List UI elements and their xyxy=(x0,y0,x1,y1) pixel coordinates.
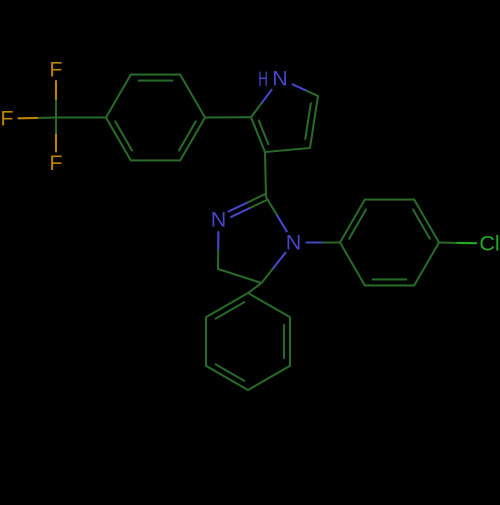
svg-text:F: F xyxy=(49,151,62,175)
pyrrole N-C2 xyxy=(251,90,272,118)
phenyl edge xyxy=(248,366,290,390)
biaryl bond ring1-pyrrole xyxy=(205,116,251,118)
pyrrole C4=C5 double xyxy=(305,96,318,148)
phenyl edge xyxy=(248,293,290,317)
phenyl edge TL double xyxy=(206,293,248,319)
svg-text:N: N xyxy=(286,231,302,255)
imidazoline C2=N3 double xyxy=(229,194,268,217)
bond C-F bottom xyxy=(55,118,57,152)
bond pyrrole to imidazoline xyxy=(265,152,266,197)
pyrrole C2=C3 double xyxy=(251,117,268,152)
imidazoline N1-C2 xyxy=(266,197,287,231)
phenyl right edge double xyxy=(284,317,290,366)
imidazoline C4-C5 xyxy=(218,269,262,283)
pyrrole C3-C4 xyxy=(265,148,310,152)
clphenyl edge TR-R double xyxy=(413,200,439,243)
ring1 edge L-TL xyxy=(106,75,131,118)
clphenyl top edge xyxy=(365,199,414,201)
clphenyl edge L-TL double xyxy=(340,200,366,243)
svg-text:H: H xyxy=(258,67,268,91)
phenyl edge BL double xyxy=(206,364,248,390)
bond C-F top xyxy=(55,81,57,118)
bond C-F left xyxy=(19,116,57,119)
phenyl left edge xyxy=(205,317,207,366)
ring1 edge R-BR double xyxy=(179,118,205,161)
ring1 edge TR-R xyxy=(180,75,205,118)
imidazoline N3-C4 xyxy=(217,232,219,269)
svg-text:N: N xyxy=(211,208,227,232)
pyrrole C5-N xyxy=(293,84,318,96)
clphenyl edge BL-L xyxy=(340,243,365,286)
svg-text:Cl: Cl xyxy=(479,232,499,256)
svg-text:F: F xyxy=(0,107,13,131)
ring1 top edge double xyxy=(131,75,180,81)
ring1 edge BL-L double xyxy=(106,118,132,161)
svg-text:N: N xyxy=(272,67,288,91)
ring1 bottom edge xyxy=(131,159,180,161)
clphenyl bottom edge double xyxy=(365,279,414,285)
bond N1-chlorophenyl xyxy=(307,241,341,243)
imidazoline C5-N1 xyxy=(262,253,286,283)
bond C-Cl xyxy=(439,241,476,244)
bond CF3 to ring1 xyxy=(56,116,106,118)
clphenyl edge R-BR xyxy=(414,243,439,286)
bond imidazoline-phenyl xyxy=(248,283,262,293)
svg-text:F: F xyxy=(49,58,62,82)
